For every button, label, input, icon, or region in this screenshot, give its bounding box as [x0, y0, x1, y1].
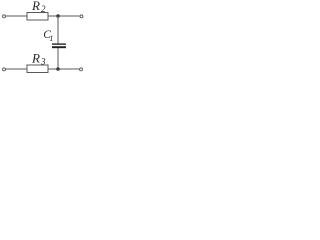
wire top-right — [48, 15, 80, 17]
terminal bottom-left — [3, 68, 6, 71]
capacitor C1 — [52, 44, 66, 47]
node junction bottom — [56, 67, 60, 71]
terminal top-right — [80, 15, 83, 18]
resistor R2 — [27, 13, 48, 21]
svg-text:1: 1 — [49, 33, 53, 43]
node junction top — [56, 14, 60, 18]
wire capacitor top lead — [57, 16, 59, 43]
background — [0, 0, 84, 81]
wire bottom-right — [48, 68, 79, 70]
svg-text:R: R — [31, 0, 40, 13]
resistor R3 — [27, 65, 48, 73]
wire top-left — [6, 15, 27, 17]
svg-text:R: R — [31, 51, 40, 66]
terminal top-left — [3, 15, 6, 18]
wire capacitor bottom lead — [57, 48, 59, 69]
svg-text:3: 3 — [40, 56, 46, 66]
svg-text:2: 2 — [41, 4, 46, 14]
terminal bottom-right — [80, 68, 83, 71]
wire bottom-left — [6, 68, 27, 70]
